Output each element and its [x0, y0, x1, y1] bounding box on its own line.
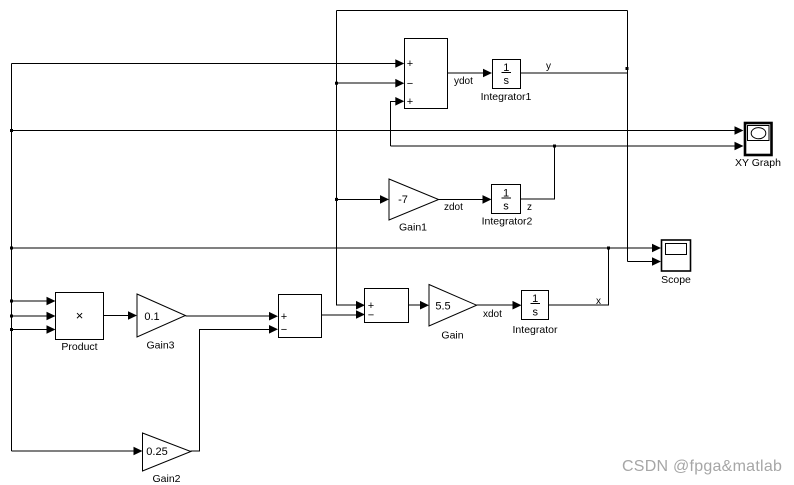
svg-text:z: z [527, 202, 532, 213]
wire: xdot Gain to Integrator [477, 301, 522, 310]
svg-text:s: s [504, 75, 510, 87]
gain block Gain3 [137, 294, 185, 352]
watermark: CSDN @fpga&matlab [622, 458, 782, 475]
wire: y from Integrator1 to y rail [521, 72, 628, 74]
wire: y into Sum1 - input 2 [337, 79, 405, 88]
svg-text:-7: -7 [398, 194, 408, 206]
wire: z into XY Graph input 2 [391, 142, 744, 151]
wire: Gain2 riser to Sum2 - input [191, 325, 279, 451]
sum block Sum1 (ydot sum) [405, 39, 448, 109]
junction: product input 3 [10, 328, 13, 331]
sum block Sum3 (second x sum) [365, 289, 409, 323]
label: xdot [483, 309, 502, 320]
svg-text:+: + [281, 311, 287, 323]
svg-text:5.5: 5.5 [435, 301, 450, 313]
svg-text:×: × [76, 308, 84, 323]
svg-text:0.1: 0.1 [144, 311, 159, 323]
wire: x into Product input 1 [12, 297, 56, 306]
wire: x into Product input 2 [12, 312, 56, 321]
svg-text:s: s [532, 307, 538, 319]
svg-text:Gain1: Gain1 [399, 222, 427, 234]
integrator block Integrator1 [481, 60, 532, 104]
junction: x rail / x main horizontal [10, 247, 13, 250]
svg-text:Product: Product [61, 341, 97, 353]
xy graph block XY Graph [735, 123, 781, 169]
label: zdot [444, 202, 463, 213]
wire: y into Scope input 2 [628, 257, 662, 266]
wire: x main feedback horizontal [12, 247, 609, 249]
svg-text:+: + [407, 96, 413, 108]
svg-text:x: x [596, 296, 601, 307]
svg-text:y: y [546, 61, 551, 72]
junction: product input 1 [10, 300, 13, 303]
wire: z into Sum1 + input 3 [391, 97, 405, 146]
wire: x into Scope input 1 [609, 244, 662, 253]
junction: x riser / x main horizontal [607, 247, 610, 250]
junction: y rail / Sum1 - input [335, 82, 338, 85]
svg-text:Gain: Gain [441, 330, 463, 342]
svg-text:Gain3: Gain3 [146, 340, 174, 352]
wire: Sum2 to Sum3 - input [322, 310, 366, 319]
svg-text:zdot: zdot [444, 202, 463, 213]
svg-text:CSDN @fpga&matlab: CSDN @fpga&matlab [622, 458, 782, 475]
junction: x rail / XY wire [10, 129, 13, 132]
wire: y rail right edge [627, 11, 629, 262]
svg-text:Scope: Scope [661, 274, 691, 286]
svg-text:Gain2: Gain2 [152, 473, 180, 485]
wire: x into Gain2 [12, 447, 143, 456]
sum block Sum2 (first x sum) [279, 295, 322, 338]
gain block Gain1 [389, 179, 439, 234]
wire: Integrator output x riser [549, 248, 609, 305]
wire: Gain3 to Sum2 + input [186, 312, 279, 321]
integrator block Integrator2 [482, 185, 533, 228]
svg-text:−: − [368, 310, 374, 322]
svg-text:Integrator2: Integrator2 [482, 216, 533, 228]
label: x [596, 296, 601, 307]
wire: y into Gain1 [337, 195, 390, 204]
svg-text:Integrator: Integrator [513, 324, 558, 336]
svg-text:−: − [407, 78, 413, 90]
wire: Sum3 to Gain [409, 301, 429, 310]
scope block Scope [661, 240, 691, 286]
wire: y rail top edge [337, 10, 628, 12]
wire: x into Sum1 + input 1 [12, 59, 405, 68]
wire: zdot Gain1 to Integrator2 [439, 195, 492, 204]
wire: x into XY Graph input 1 [12, 126, 744, 135]
svg-text:ydot: ydot [454, 76, 473, 87]
label: y [546, 61, 551, 72]
integrator block Integrator [513, 291, 558, 337]
gain block Gain [429, 285, 477, 342]
wire: x into Product input 3 [12, 325, 56, 334]
label: ydot [454, 76, 473, 87]
wire: x feedback left rail (vertical) [11, 64, 13, 452]
junction: product input 2 [10, 315, 13, 318]
svg-text:s: s [503, 201, 509, 213]
wire: Product to Gain3 [104, 311, 137, 320]
wire: y rail left (box left edge) into Sum2 + input [337, 11, 366, 310]
svg-text:Integrator1: Integrator1 [481, 91, 532, 103]
junction: z riser / z wire [553, 145, 556, 148]
svg-text:+: + [407, 58, 413, 70]
wire: ydot Sum1 to Integrator1 [448, 69, 492, 78]
svg-text:0.25: 0.25 [146, 446, 167, 458]
svg-text:−: − [281, 324, 287, 336]
svg-text:xdot: xdot [483, 309, 502, 320]
wire: z from Integrator2 riser [521, 146, 555, 199]
gain block Gain2 [143, 433, 191, 485]
product block Product [56, 293, 104, 354]
svg-text:XY Graph: XY Graph [735, 157, 781, 169]
junction: y wire / y rail right [626, 67, 629, 70]
junction: y rail / Gain1 input [335, 198, 338, 201]
label: z [527, 202, 532, 213]
